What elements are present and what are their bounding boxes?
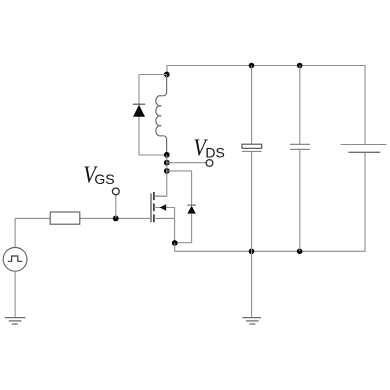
terminal VDS open circle — [206, 160, 213, 167]
capacitor C1 (polarized box plate) — [242, 144, 262, 151]
wire drain column — [154, 155, 167, 196]
inductor L1 — [156, 75, 167, 155]
transistor Q1 source lead — [154, 217, 175, 219]
transistor Q1 body lead with arrow — [154, 207, 175, 209]
wire diode branch vertical — [139, 75, 167, 156]
svg-text:DS: DS — [205, 144, 224, 160]
node bottom-rail junction 2 — [297, 249, 303, 255]
pulse source waveform — [8, 256, 23, 261]
node E (source junction) — [172, 240, 178, 246]
wire pulse source to resistor — [14, 218, 16, 247]
node A (inductor/diode top) — [164, 72, 170, 78]
node C — [164, 160, 170, 166]
wire source vertical — [174, 208, 176, 244]
wire VDS tap — [167, 162, 206, 164]
wire node A to diode branch — [139, 74, 167, 76]
terminal VGS open circle — [112, 188, 119, 195]
wire body-diode to source node — [175, 214, 192, 243]
wire pulse source to ground — [14, 271, 16, 317]
wire body-diode branch — [167, 171, 192, 205]
wire VGS tap vertical — [115, 195, 117, 219]
node top-rail junction 2 — [297, 63, 303, 69]
resistor R1 — [50, 212, 80, 224]
ground (left, under pulse source) — [5, 318, 26, 324]
battery/source V1 plates — [341, 145, 387, 153]
capacitor C1 branch wire — [251, 66, 253, 318]
node top-rail junction 1 — [249, 63, 255, 69]
capacitor C2 — [290, 144, 310, 149]
transistor Q1 gate plate — [150, 193, 152, 222]
node D — [164, 168, 170, 174]
pulse source V2 circle — [3, 247, 27, 271]
node B — [164, 152, 170, 158]
transistor Q1 channel bars — [153, 192, 155, 222]
wire top rail — [167, 66, 365, 145]
wire bottom rail — [175, 152, 365, 251]
svg-text:GS: GS — [94, 171, 114, 187]
wire gate line — [15, 217, 151, 219]
transistor Q1 drain lead — [154, 195, 167, 197]
node bottom-rail junction 1 — [249, 249, 255, 255]
capacitor C2 branch wire — [299, 66, 301, 252]
diode D2 (clamp) — [187, 205, 195, 214]
node VGS tap — [113, 216, 119, 222]
ground (mid, under C1) — [243, 318, 262, 324]
diode D1 (freewheel) — [133, 104, 145, 117]
